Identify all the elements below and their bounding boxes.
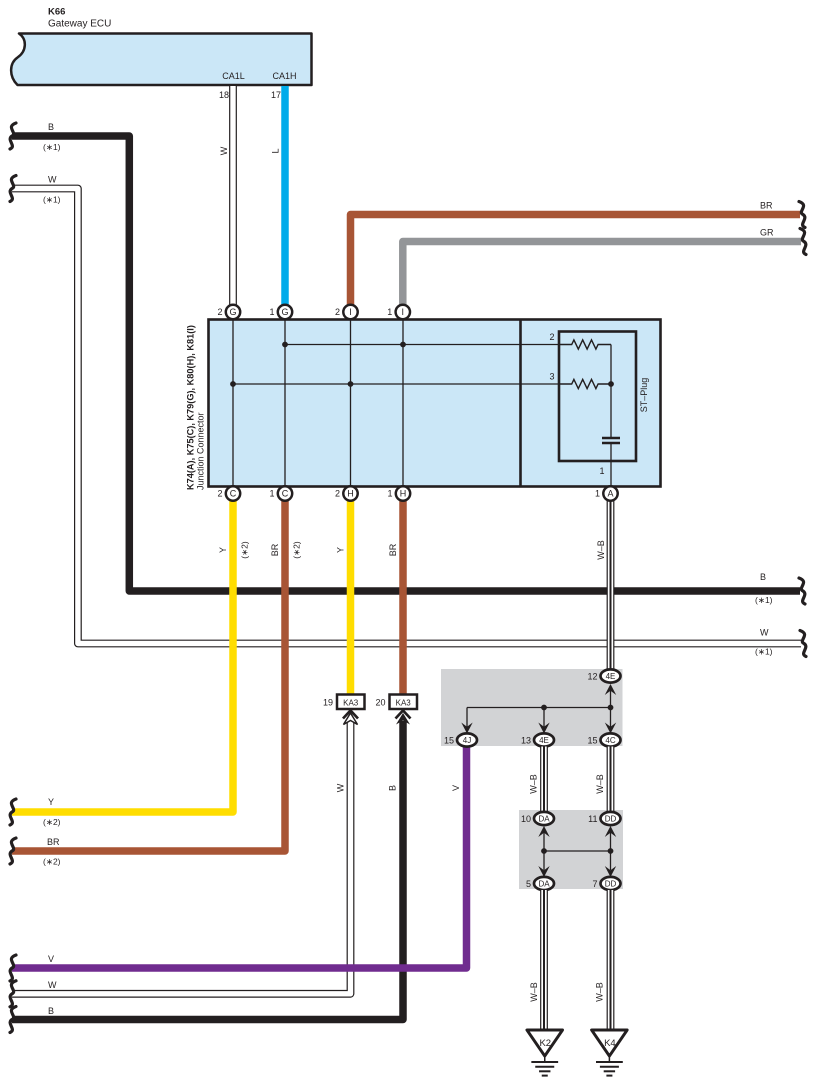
svg-text:H: H (400, 489, 407, 499)
svg-text:(∗1): (∗1) (755, 595, 773, 605)
svg-text:CA1H: CA1H (272, 71, 296, 81)
svg-text:B: B (48, 122, 54, 132)
svg-text:3: 3 (549, 372, 554, 382)
svg-text:A: A (607, 489, 613, 499)
svg-text:13: 13 (521, 736, 531, 746)
svg-text:GR: GR (760, 228, 774, 238)
svg-text:K2: K2 (539, 1038, 551, 1049)
svg-text:BR: BR (47, 837, 60, 847)
svg-text:1: 1 (595, 489, 600, 499)
svg-text:5: 5 (526, 879, 531, 889)
svg-text:K66: K66 (48, 7, 65, 18)
svg-text:W–B: W–B (529, 982, 539, 1002)
svg-text:W: W (219, 146, 229, 155)
svg-text:G: G (281, 307, 288, 317)
svg-text:W–B: W–B (595, 982, 605, 1002)
svg-text:10: 10 (521, 814, 531, 824)
svg-text:W: W (48, 175, 57, 185)
svg-text:BR: BR (388, 543, 398, 556)
svg-text:2: 2 (335, 307, 340, 317)
svg-text:15: 15 (587, 736, 597, 746)
svg-text:18: 18 (219, 90, 229, 100)
svg-text:2: 2 (549, 332, 554, 342)
svg-text:H: H (347, 489, 354, 499)
svg-text:1: 1 (387, 307, 392, 317)
svg-text:ST–Plug: ST–Plug (639, 378, 649, 413)
svg-text:(∗1): (∗1) (755, 647, 773, 657)
svg-text:1: 1 (269, 307, 274, 317)
svg-text:I: I (349, 307, 352, 317)
svg-text:Junction Connector: Junction Connector (196, 412, 206, 490)
svg-text:20: 20 (375, 698, 385, 708)
svg-text:DA: DA (538, 815, 550, 824)
svg-text:4E: 4E (539, 736, 549, 745)
svg-text:K4: K4 (604, 1038, 616, 1049)
svg-text:(∗2): (∗2) (240, 541, 250, 559)
svg-text:DD: DD (605, 880, 617, 889)
svg-text:W: W (760, 628, 769, 638)
svg-text:W: W (48, 980, 57, 990)
svg-text:11: 11 (588, 814, 597, 824)
svg-text:KA3: KA3 (396, 699, 412, 708)
svg-text:(∗1): (∗1) (43, 142, 61, 152)
svg-text:W–B: W–B (595, 774, 605, 794)
svg-text:BR: BR (270, 543, 280, 556)
svg-text:C: C (230, 489, 237, 499)
svg-text:Gateway ECU: Gateway ECU (48, 19, 111, 30)
svg-text:W: W (336, 783, 346, 792)
svg-text:7: 7 (592, 879, 597, 889)
svg-text:B: B (760, 572, 766, 582)
svg-text:Y: Y (48, 797, 54, 807)
svg-text:W–B: W–B (529, 774, 539, 794)
svg-text:1: 1 (269, 489, 274, 499)
svg-text:15: 15 (444, 736, 454, 746)
svg-text:KA3: KA3 (343, 699, 359, 708)
svg-text:19: 19 (323, 698, 333, 708)
svg-text:Y: Y (218, 547, 228, 553)
svg-text:DA: DA (538, 880, 550, 889)
svg-text:W–B: W–B (596, 540, 606, 560)
svg-text:V: V (451, 785, 461, 791)
svg-text:B: B (388, 785, 398, 791)
svg-text:(∗2): (∗2) (43, 857, 61, 867)
svg-text:1: 1 (387, 489, 392, 499)
svg-text:2: 2 (217, 489, 222, 499)
svg-text:4E: 4E (606, 672, 616, 681)
svg-text:B: B (48, 1006, 54, 1016)
svg-text:Y: Y (336, 547, 346, 553)
svg-text:V: V (48, 954, 54, 964)
svg-text:2: 2 (335, 489, 340, 499)
svg-text:1: 1 (599, 466, 604, 476)
svg-text:(∗1): (∗1) (43, 195, 61, 205)
svg-text:K74(A), K75(C), K79(G), K80(H): K74(A), K75(C), K79(G), K80(H), K81(I) (186, 325, 196, 490)
svg-text:I: I (402, 307, 405, 317)
svg-text:12: 12 (587, 672, 597, 682)
svg-text:L: L (271, 148, 281, 153)
svg-text:G: G (229, 307, 236, 317)
svg-text:2: 2 (217, 307, 222, 317)
svg-text:(∗2): (∗2) (292, 541, 302, 559)
svg-text:4J: 4J (463, 736, 471, 745)
svg-text:C: C (282, 489, 289, 499)
svg-text:4C: 4C (605, 736, 615, 745)
svg-text:17: 17 (271, 90, 281, 100)
svg-text:(∗2): (∗2) (43, 817, 61, 827)
svg-text:CA1L: CA1L (222, 71, 245, 81)
svg-text:BR: BR (760, 201, 773, 211)
svg-text:DD: DD (605, 815, 617, 824)
